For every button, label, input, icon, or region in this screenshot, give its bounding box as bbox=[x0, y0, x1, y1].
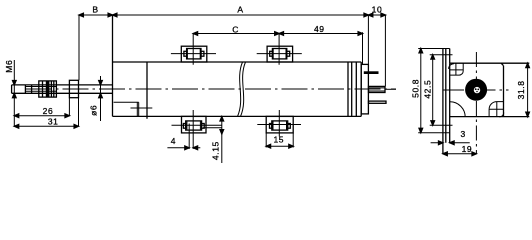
corner detail top-left bbox=[449, 63, 464, 75]
connector pin 2 barrel bbox=[369, 86, 386, 92]
dim 4 bbox=[188, 124, 190, 149]
corner detail bottom-left (arc) bbox=[450, 102, 465, 117]
svg-text:B: B bbox=[92, 4, 98, 14]
top clamp 1 bbox=[171, 46, 216, 62]
bottom clamp 1 bbox=[172, 110, 222, 149]
svg-text:26: 26 bbox=[43, 106, 54, 116]
horizontal centerline bbox=[443, 89, 509, 91]
end view body bbox=[450, 63, 530, 117]
dim 3 bbox=[431, 142, 470, 144]
svg-text:C: C bbox=[232, 24, 239, 34]
mounting tab bbox=[443, 49, 450, 154]
svg-text:15: 15 bbox=[273, 134, 284, 144]
dim 19 bbox=[443, 153, 477, 155]
vertical centerline bbox=[475, 52, 477, 154]
connector flange bbox=[361, 64, 368, 114]
dim 26 bbox=[14, 98, 69, 116]
M6 dimension bbox=[13, 60, 15, 126]
svg-text:A: A bbox=[237, 4, 243, 14]
dim C / 49 bbox=[193, 32, 362, 65]
svg-text:4.15: 4.15 bbox=[210, 141, 220, 160]
dim 15 bbox=[266, 133, 293, 148]
svg-text:M6: M6 bbox=[4, 60, 14, 73]
top dim chain B / A / 10 bbox=[79, 15, 385, 87]
front flange block bbox=[113, 15, 148, 119]
connector pin 1 (solid) bbox=[364, 71, 379, 74]
svg-text:31: 31 bbox=[48, 117, 59, 127]
grub screw mark bbox=[131, 107, 153, 109]
svg-text:49: 49 bbox=[314, 24, 325, 34]
tube break lines bbox=[238, 62, 246, 116]
svg-text:3: 3 bbox=[461, 129, 466, 139]
dim 4.15 bbox=[221, 117, 223, 163]
svg-text:19: 19 bbox=[462, 144, 473, 154]
thread core lines bbox=[25, 87, 56, 92]
dim 42.5 bbox=[432, 55, 434, 126]
svg-text:42.5: 42.5 bbox=[423, 80, 433, 99]
corner detail bottom-right bbox=[489, 102, 504, 117]
svg-text:ø6: ø6 bbox=[88, 105, 98, 116]
nut stack bbox=[39, 81, 57, 97]
dim 31 bbox=[14, 98, 78, 127]
dim 50.8 bbox=[420, 49, 422, 133]
connector pin 3 bbox=[369, 101, 387, 103]
svg-text:50.8: 50.8 bbox=[411, 79, 421, 98]
connector boss (black disc) bbox=[465, 79, 487, 101]
svg-text:10: 10 bbox=[372, 5, 383, 15]
shaft collar bbox=[69, 80, 78, 97]
top clamp 2 bbox=[257, 46, 302, 62]
bottom clamp 2 bbox=[257, 110, 301, 137]
end cap rings bbox=[348, 62, 356, 116]
actuator rod (threaded tip) bbox=[12, 85, 113, 93]
dim 31.8 bbox=[527, 63, 529, 116]
centerline main view bbox=[26, 88, 396, 90]
svg-text:31.8: 31.8 bbox=[516, 80, 526, 99]
flange bottom step bbox=[114, 102, 139, 116]
dia6 dimension bbox=[100, 76, 102, 121]
tube body bbox=[113, 62, 362, 116]
svg-text:4: 4 bbox=[171, 136, 176, 146]
